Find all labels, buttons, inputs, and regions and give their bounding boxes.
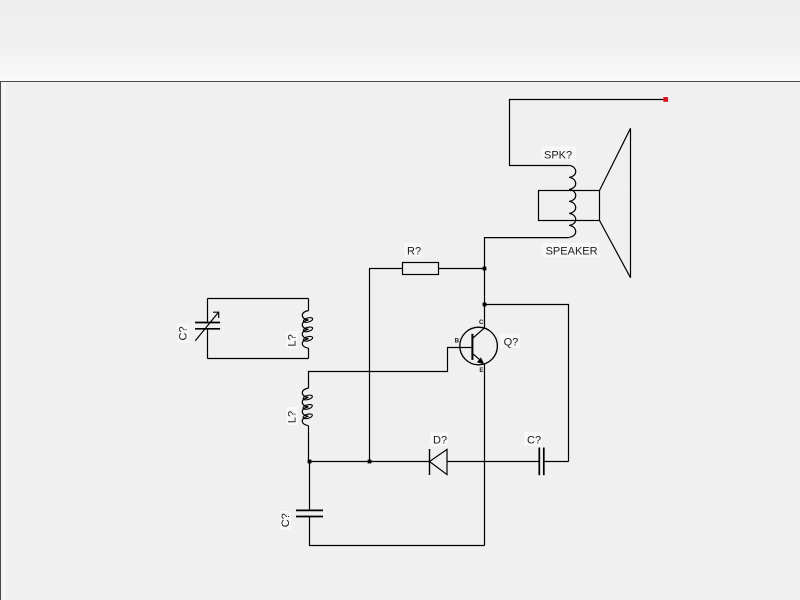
svg-text:Q?: Q?: [504, 337, 519, 349]
transistor Q? emitter arrowhead: [477, 357, 485, 364]
inductor L? (L1 tank) winding: [302, 311, 308, 349]
wire C2 bottom to rail: [310, 517, 485, 545]
inductor L? (L2) winding: [302, 388, 308, 426]
resistor R? body: [403, 263, 439, 275]
capacitor C? (coupling) plates: [538, 448, 540, 476]
variable capacitor C? leads: [207, 299, 209, 322]
svg-text:SPEAKER: SPEAKER: [546, 246, 598, 258]
wire resistor left branch down: [370, 269, 403, 462]
wire diode to capacitor: [447, 461, 539, 463]
wire emitter down: [484, 364, 486, 546]
svg-text:L?: L?: [287, 411, 299, 423]
transistor Q? emitter stroke: [472, 353, 479, 359]
wire L2 bottom lead: [308, 426, 310, 462]
L2 winding loop ellipses: [303, 394, 313, 419]
wire resistor right to collector rail: [439, 268, 485, 270]
unconnected wire end marker (red): [663, 97, 668, 102]
variable capacitor C? arrow: [195, 312, 218, 341]
junction dot bottom rail left: [308, 460, 312, 464]
svg-text:L?: L?: [287, 334, 299, 346]
svg-text:D?: D?: [433, 434, 447, 446]
svg-text:R?: R?: [407, 246, 421, 258]
wire capacitor to feedback branch: [544, 461, 569, 463]
inductor L? (L1 tank) leads: [308, 299, 310, 311]
variable capacitor C? plates: [195, 322, 220, 324]
tank loop top wire: [208, 298, 309, 300]
junction dot resistor right: [483, 267, 487, 271]
wire top horizontal to antenna endpoint: [510, 100, 664, 166]
wire speaker bottom to collector rail: [485, 238, 570, 328]
transistor Q? base bar: [471, 334, 473, 360]
tank loop bottom wire: [208, 358, 309, 360]
svg-text:C?: C?: [527, 435, 541, 447]
svg-text:C: C: [479, 319, 484, 326]
wire bottom rail left: [309, 461, 430, 463]
capacitor C? (bottom) plates: [296, 509, 323, 511]
diode D? triangle: [430, 449, 448, 474]
wire base network: [309, 348, 473, 389]
diode D? cathode bar: [429, 449, 431, 475]
svg-text:C?: C?: [280, 513, 292, 527]
wire collector junction to right feedback branch: [485, 305, 569, 462]
svg-text:B: B: [455, 338, 460, 345]
transistor Q? circle: [460, 327, 498, 365]
speaker SPK? cone: [600, 128, 631, 277]
speaker coil SPK? winding: [569, 165, 576, 237]
junction dot bottom rail mid: [368, 460, 372, 464]
label backgrounds: [178, 146, 599, 530]
transistor Q? collector stroke: [472, 328, 484, 338]
svg-text:C?: C?: [177, 326, 189, 340]
wire junction to C2 top: [309, 462, 311, 510]
svg-text:SPK?: SPK?: [544, 149, 572, 161]
junction dot collector node: [483, 303, 487, 307]
speaker SPK? frame rectangle: [539, 191, 600, 221]
svg-text:E: E: [479, 367, 483, 374]
L1 winding loop ellipses: [303, 317, 313, 342]
